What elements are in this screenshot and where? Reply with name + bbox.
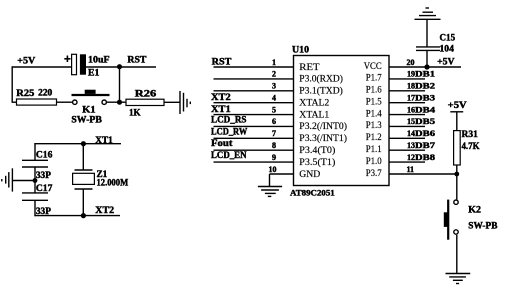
svg-text:XT2: XT2 <box>95 205 114 215</box>
node DB2 label <box>415 81 435 91</box>
svg-text:18: 18 <box>407 82 415 91</box>
ground (below K2) <box>446 274 471 284</box>
ground (above C15, pointing up) <box>415 8 441 19</box>
wire vertical RST to switch row <box>119 67 121 102</box>
node RST label (pin 1) <box>212 56 232 66</box>
node XT1 label <box>95 135 113 145</box>
svg-text:P3.1(TXD): P3.1(TXD) <box>299 86 343 96</box>
svg-text:10: 10 <box>269 165 277 174</box>
svg-text:8: 8 <box>272 141 276 150</box>
pin name P1.0 <box>366 156 382 166</box>
pin number 19 <box>407 70 415 79</box>
svg-text:DB6: DB6 <box>415 128 435 138</box>
svg-text:R26: R26 <box>135 88 157 98</box>
svg-text:SW-PB: SW-PB <box>71 115 102 125</box>
wire pin 12 (DB8) <box>389 161 425 163</box>
node LCD_RS label <box>211 115 247 125</box>
pin number 11 <box>407 165 415 174</box>
wire pin 18 (DB2) <box>389 90 425 92</box>
node +5V (R31) <box>448 100 467 112</box>
pin name VCC <box>364 61 382 71</box>
svg-text:RST: RST <box>127 55 146 65</box>
pin number 2 <box>272 70 276 79</box>
node LCD_RW label <box>211 127 247 137</box>
svg-text:5: 5 <box>272 105 276 114</box>
svg-text:20: 20 <box>407 58 415 67</box>
pin name P1.6 <box>366 85 382 95</box>
resistor R25 220 <box>16 88 56 106</box>
svg-text:P1.3: P1.3 <box>366 120 382 130</box>
svg-text:19: 19 <box>407 70 415 79</box>
pin number 14 <box>407 129 415 138</box>
svg-text:P3.7: P3.7 <box>366 168 382 178</box>
svg-text:P3.4(T0): P3.4(T0) <box>299 145 335 155</box>
svg-text:P1.2: P1.2 <box>366 132 382 142</box>
pin number 18 <box>407 82 415 91</box>
node LCD_EN label <box>211 150 247 160</box>
svg-text:11: 11 <box>407 165 415 174</box>
svg-text:DB2: DB2 <box>415 81 435 91</box>
svg-text:P3.2(/INT0): P3.2(/INT0) <box>299 121 347 131</box>
svg-text:P1.4: P1.4 <box>366 108 382 118</box>
wire pin 10 (GND) <box>270 174 294 187</box>
wire C16 to C17 (mid rail) <box>34 167 36 193</box>
svg-text:LCD_EN: LCD_EN <box>211 150 247 160</box>
junction at K1/R26/RST <box>117 100 122 105</box>
junction XT1/crystal <box>81 141 86 146</box>
svg-text:P1.5: P1.5 <box>366 97 382 107</box>
pin number 4 <box>272 94 276 103</box>
wire pin 15 (DB5) <box>389 125 425 127</box>
pin name XTAL2 <box>299 98 329 108</box>
node DB7 label <box>415 140 436 150</box>
pin number 3 <box>272 82 276 91</box>
junction mid rail / ground <box>33 178 38 183</box>
svg-text:RST: RST <box>212 56 232 66</box>
svg-text:R31: R31 <box>462 129 479 139</box>
svg-text:+5V: +5V <box>437 56 455 66</box>
svg-text:GND: GND <box>299 169 321 179</box>
node +5V (pin 20) <box>437 56 455 66</box>
node +5V (top-left) <box>17 56 36 66</box>
pin number 9 <box>272 153 276 162</box>
svg-text:220: 220 <box>38 88 53 98</box>
wire XT1 top rail <box>34 143 121 145</box>
svg-text:RET: RET <box>299 62 320 72</box>
switch K1 SW-PB <box>71 90 109 125</box>
node DB6 label <box>415 128 435 138</box>
svg-text:K1: K1 <box>82 105 96 115</box>
svg-text:3: 3 <box>272 82 276 91</box>
pin name P1.1 <box>366 144 382 154</box>
node XT2 label <box>95 205 114 215</box>
node DB5 label <box>415 116 435 126</box>
svg-text:R25: R25 <box>16 88 35 98</box>
svg-text:XT1: XT1 <box>211 104 231 114</box>
pin name P1.5 <box>366 97 382 107</box>
wire R25 to K1 <box>57 101 72 103</box>
svg-text:1: 1 <box>272 58 276 67</box>
wire pin 17 (DB3) <box>389 102 425 104</box>
pin name P3.5(T1) <box>299 157 335 167</box>
wire C17 down to XT2 rail <box>34 200 36 216</box>
junction pin11/R31/K2 <box>454 172 459 177</box>
IC U10 AT89C2051 <box>290 45 389 198</box>
svg-text:33P: 33P <box>36 170 52 180</box>
svg-text:1K: 1K <box>129 107 141 117</box>
svg-text:10uF: 10uF <box>88 55 110 65</box>
svg-text:C15: C15 <box>440 32 456 42</box>
wire pin 2 <box>214 78 294 80</box>
wire pin 14 (DB6) <box>389 137 425 139</box>
wire pin 11 (P3.7 to K2) <box>389 173 457 175</box>
pin number 6 <box>272 117 276 126</box>
svg-text:P3.0(RXD): P3.0(RXD) <box>299 74 343 84</box>
node DB1 label <box>415 69 435 79</box>
svg-text:XT2: XT2 <box>211 92 231 102</box>
svg-text:K2: K2 <box>468 204 481 214</box>
svg-text:+5V: +5V <box>448 100 467 110</box>
pin name P3.2(/INT0) <box>299 121 347 131</box>
ground (left of C16/C17, pointing left) <box>2 168 13 191</box>
wire +5V rail to capacitor E1 <box>12 66 72 68</box>
node Fout label <box>211 138 232 148</box>
wire pin 19 (DB1) <box>389 78 425 80</box>
svg-text:P3.5(T1): P3.5(T1) <box>299 157 335 167</box>
svg-text:DB1: DB1 <box>415 69 435 79</box>
svg-text:6: 6 <box>272 117 276 126</box>
svg-text:4: 4 <box>272 94 276 103</box>
svg-text:P1.7: P1.7 <box>366 73 382 83</box>
pin number 17 <box>407 94 415 103</box>
wire pin 9 (LCD_EN) <box>214 161 294 163</box>
node DB3 label <box>415 93 435 103</box>
svg-text:XTAL2: XTAL2 <box>299 98 329 108</box>
wire R31 to junction <box>456 165 458 174</box>
svg-text:2: 2 <box>272 70 276 79</box>
svg-text:C17: C17 <box>36 183 53 193</box>
svg-text:DB5: DB5 <box>415 116 435 126</box>
pin name P1.4 <box>366 108 382 118</box>
wire RST net segment <box>86 66 156 68</box>
capacitor C17 33P <box>22 183 53 216</box>
capacitor C16 33P <box>22 150 53 181</box>
svg-text:13: 13 <box>407 141 415 150</box>
capacitor E1 10uF (polarized) <box>64 54 110 77</box>
pin number 20 <box>407 58 415 67</box>
wire pin 3 <box>214 90 294 92</box>
wire +5V to R31 <box>456 112 458 131</box>
wire pin 4 (XT2) <box>214 102 294 104</box>
pin name P1.7 <box>366 73 382 83</box>
node DB8 label <box>415 152 435 162</box>
wire pin 13 (DB7) <box>389 149 425 151</box>
wire R26 to ground <box>164 101 180 103</box>
pin name P3.1(TXD) <box>299 86 343 96</box>
ground (below pin 10) <box>258 187 282 197</box>
svg-text:VCC: VCC <box>364 61 382 71</box>
pin number 7 <box>272 129 276 138</box>
svg-text:Fout: Fout <box>211 138 232 148</box>
svg-text:XT1: XT1 <box>95 135 113 145</box>
node XT1 label (pin 5) <box>211 104 231 114</box>
pin number 10 <box>269 165 277 174</box>
capacitor C15 104 <box>416 19 456 67</box>
wire junction to K2 <box>456 174 458 200</box>
pin name P3.3(/INT1) <box>299 133 347 143</box>
wire pin 7 (LCD_RW) <box>214 137 294 139</box>
svg-text:14: 14 <box>407 129 415 138</box>
svg-text:SW-PB: SW-PB <box>468 221 497 231</box>
wire left rail down to C16 <box>34 143 36 160</box>
node RST label <box>127 55 146 65</box>
svg-text:P1.6: P1.6 <box>366 85 382 95</box>
wire pin 6 (LCD_RS) <box>214 125 294 127</box>
pin name P1.3 <box>366 120 382 130</box>
pin name GND <box>299 169 321 179</box>
pin number 1 <box>272 58 276 67</box>
svg-text:17: 17 <box>407 94 415 103</box>
svg-text:U10: U10 <box>292 45 310 55</box>
wire pin 16 (DB4) <box>389 114 425 116</box>
pin number 16 <box>407 105 415 114</box>
svg-text:33P: 33P <box>36 206 52 216</box>
pin name P3.7 <box>366 168 382 178</box>
svg-text:12.000M: 12.000M <box>97 178 129 188</box>
svg-text:LCD_RS: LCD_RS <box>211 115 247 125</box>
svg-text:15: 15 <box>407 117 415 126</box>
junction pin20/C15 <box>424 64 429 69</box>
junction on RST wire <box>117 64 122 69</box>
pin name XTAL1 <box>299 109 329 119</box>
wire K2 to ground <box>456 235 458 274</box>
crystal Z1 12.000M <box>73 144 129 216</box>
svg-text:AT89C2051: AT89C2051 <box>290 187 335 197</box>
pin name P3.0(RXD) <box>299 74 343 84</box>
wire XT2 bottom rail <box>34 215 120 217</box>
wire left vertical drop to R25 <box>12 66 17 102</box>
svg-text:DB3: DB3 <box>415 93 435 103</box>
pin name P3.4(T0) <box>299 145 335 155</box>
pin name P1.2 <box>366 132 382 142</box>
pin name RET <box>299 62 320 72</box>
svg-text:LCD_RW: LCD_RW <box>211 127 247 137</box>
wire pin 1 (RST) <box>214 66 294 68</box>
node XT2 label (pin 4) <box>211 92 231 102</box>
svg-text:12: 12 <box>407 153 415 162</box>
switch K2 SW-PB <box>444 200 498 240</box>
svg-text:16: 16 <box>407 105 415 114</box>
svg-text:P3.3(/INT1): P3.3(/INT1) <box>299 133 347 143</box>
svg-text:DB8: DB8 <box>415 152 435 162</box>
wire K1 to R26 <box>107 101 126 103</box>
svg-text:4.7K: 4.7K <box>462 141 480 151</box>
resistor R31 4.7K <box>454 129 480 165</box>
pin number 15 <box>407 117 415 126</box>
wire pin 5 (XT1) <box>214 114 294 116</box>
resistor R26 1K <box>126 88 164 117</box>
wire pin 20 (VCC to +5V) <box>389 66 461 68</box>
svg-text:104: 104 <box>440 44 455 54</box>
wire mid rail to ground <box>12 180 35 182</box>
svg-text:XTAL1: XTAL1 <box>299 109 329 119</box>
pin number 5 <box>272 105 276 114</box>
svg-text:E1: E1 <box>88 68 100 78</box>
svg-text:DB4: DB4 <box>415 104 436 114</box>
svg-text:9: 9 <box>272 153 276 162</box>
svg-text:DB7: DB7 <box>415 140 436 150</box>
svg-text:C16: C16 <box>36 150 53 160</box>
node DB4 label <box>415 104 436 114</box>
pin number 8 <box>272 141 276 150</box>
svg-text:7: 7 <box>272 129 276 138</box>
ground (right of R26, pointing right) <box>180 91 190 114</box>
svg-text:+5V: +5V <box>17 56 36 66</box>
pin number 12 <box>407 153 415 162</box>
svg-text:P1.1: P1.1 <box>366 144 382 154</box>
svg-text:P1.0: P1.0 <box>366 156 382 166</box>
wire pin 8 (Fout) <box>214 149 294 151</box>
junction XT2/crystal <box>81 213 86 218</box>
pin number 13 <box>407 141 415 150</box>
